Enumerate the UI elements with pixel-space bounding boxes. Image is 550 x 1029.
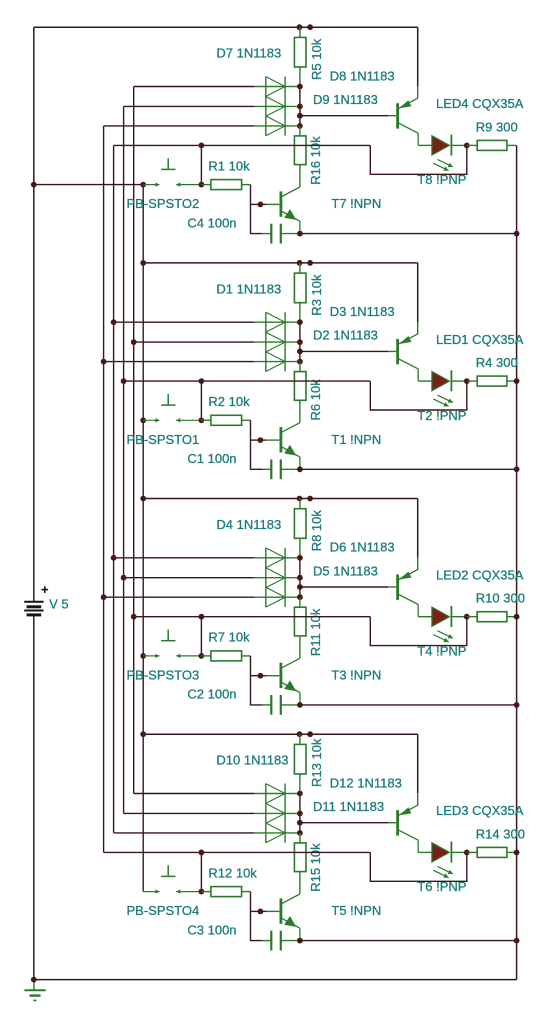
diode cathode common bar <box>284 312 286 371</box>
diode D9 (middle) <box>254 97 300 117</box>
transistor T8 !PNP PNP <box>398 98 419 145</box>
diode cathode common bar <box>284 784 286 843</box>
resistor R7 10k (horizontal) <box>201 655 211 657</box>
wire bus net-B (LED1 feedback) <box>123 106 125 813</box>
node LED output <box>464 378 470 384</box>
node cathode row2 <box>297 811 303 817</box>
node cathode base tap <box>297 349 303 355</box>
svg-text:C4 100n: C4 100n <box>187 215 236 230</box>
diode anode common bar <box>265 784 267 843</box>
wire diode input row 2 <box>134 341 254 343</box>
node button-resistor junction <box>199 182 205 188</box>
node rail junction b <box>307 496 313 502</box>
wire resistor to cap <box>251 656 263 705</box>
node LED output <box>464 143 470 149</box>
svg-text:C2 100n: C2 100n <box>187 687 236 702</box>
svg-text:D4 1N1183: D4 1N1183 <box>216 517 281 532</box>
resistor R10 300 (horizontal) <box>467 616 477 618</box>
wire emitter return to right rail <box>300 233 517 235</box>
svg-text:V 5: V 5 <box>49 597 69 612</box>
transistor T1 !NPN NPN <box>281 423 300 470</box>
wire emitter return to right rail <box>300 940 517 942</box>
svg-text:R8 10k: R8 10k <box>309 510 324 552</box>
wire bottom rail <box>34 979 517 981</box>
capacitor C1 100n <box>262 459 300 479</box>
node base wire joint <box>258 673 264 679</box>
wire feedback to bus <box>134 616 371 618</box>
LED emission arrows <box>438 395 453 402</box>
wire left +V rail (battery + to top) <box>33 27 35 602</box>
wire diode input row 1 <box>114 321 254 323</box>
svg-text:PB-SPSTO1: PB-SPSTO1 <box>127 432 200 447</box>
wire bus net-C (LED2 feedback) <box>133 87 135 794</box>
wire left rail (battery - to bottom) <box>33 615 35 980</box>
node button-resistor junction <box>199 653 205 659</box>
resistor R6 10k (vertical) <box>299 362 301 372</box>
wire diode input row 1 <box>114 557 254 559</box>
diode D6 (bottom) <box>254 587 300 607</box>
resistor R9 300 (horizontal) <box>467 144 477 146</box>
node rail junction b <box>307 731 313 737</box>
diode D1 (top) <box>254 312 300 332</box>
wire feedback to bus <box>114 144 371 146</box>
wire PNP emitter to rail <box>417 499 419 558</box>
node LED output <box>464 614 470 620</box>
resistor R5 10k (vertical) <box>299 27 301 37</box>
wire cathode column <box>299 558 301 597</box>
wire cathode column <box>299 87 301 126</box>
capacitor C4 100n <box>262 224 300 244</box>
node feedback drop tap <box>199 850 205 856</box>
node base wire joint <box>258 202 264 208</box>
svg-text:D5 1N1183: D5 1N1183 <box>313 563 378 578</box>
wire feedback jog <box>370 852 467 881</box>
node right-rail return tap <box>514 231 520 237</box>
svg-text:T3 !NPN: T3 !NPN <box>331 668 381 683</box>
node right-rail return tap <box>514 702 520 708</box>
resistor R1 10k (horizontal) <box>201 184 211 186</box>
wire diode input row 2 <box>124 105 254 107</box>
push-button PB-SPSTO1 <box>143 419 159 421</box>
wire right rail <box>516 145 518 979</box>
svg-text:R16 10k: R16 10k <box>308 136 323 185</box>
svg-text:R10 300: R10 300 <box>476 591 525 606</box>
node cathode row1 <box>297 791 303 797</box>
wire diode input row 2 <box>124 577 254 579</box>
svg-text:R6 10k: R6 10k <box>308 379 323 421</box>
diode D5 (middle) <box>254 568 300 588</box>
node +V tap <box>140 260 146 266</box>
diode D4 (top) <box>254 548 300 568</box>
wire PNP emitter to rail <box>417 263 419 322</box>
svg-text:D12 1N1183: D12 1N1183 <box>330 775 402 790</box>
push-button PB-SPSTO4 <box>143 891 159 893</box>
wire diode input row 1 <box>134 86 254 88</box>
wire feedback to bus <box>104 851 371 853</box>
svg-text:LED3 CQX35A: LED3 CQX35A <box>436 803 524 818</box>
node cathode base tap <box>297 584 303 590</box>
wire diode input row 2 <box>124 812 254 814</box>
node right-rail tap <box>514 378 520 384</box>
node bus tap row1 <box>111 555 117 561</box>
ground <box>24 980 45 1001</box>
wire PNP base <box>300 586 388 588</box>
node cathode row1 <box>297 84 303 90</box>
svg-text:R13 10k: R13 10k <box>309 738 324 787</box>
wire PNP emitter to rail <box>417 734 419 793</box>
node +V rail tap <box>31 182 37 188</box>
push-button PB-SPSTO2 <box>143 184 159 186</box>
node cathode row3 <box>297 830 303 836</box>
node button +V node <box>140 417 146 423</box>
node feedback drop tap <box>199 143 205 149</box>
diode D3 (bottom) <box>254 352 300 372</box>
node button-resistor junction <box>199 889 205 895</box>
node rail junction a <box>297 24 303 30</box>
wire +V rail of block 2 <box>143 262 418 264</box>
wire +V rail of block 3 <box>143 498 418 500</box>
node right-rail return tap <box>514 466 520 472</box>
wire feedback drop to button row <box>200 381 202 420</box>
wire base wire <box>251 203 267 205</box>
wire resistor to cap <box>251 420 263 469</box>
diode anode common bar <box>265 312 267 371</box>
transistor T4 !PNP PNP <box>398 570 419 617</box>
node emitter-cap junction <box>297 466 303 472</box>
diode cathode common bar <box>284 548 286 607</box>
node right-rail tap <box>514 614 520 620</box>
node +V tap <box>140 731 146 737</box>
svg-text:PB-SPSTO4: PB-SPSTO4 <box>127 903 200 918</box>
wire resistor to cap <box>251 892 263 941</box>
wire feedback jog <box>370 145 467 174</box>
capacitor C3 100n <box>262 931 300 951</box>
svg-text:R12 10k: R12 10k <box>208 865 257 880</box>
wire PNP base <box>300 115 388 117</box>
node bus tap row2 <box>121 575 127 581</box>
wire base wire <box>251 675 267 677</box>
diode anode common bar <box>265 77 267 136</box>
resistor R13 10k (vertical) <box>299 734 301 744</box>
resistor R11 10k (vertical) <box>299 597 301 607</box>
node rail junction a <box>297 731 303 737</box>
resistor R3 10k (vertical) <box>299 263 301 273</box>
wire +V top rail <box>34 26 418 28</box>
push-button PB-SPSTO3 <box>143 655 159 657</box>
wire cathode column <box>299 322 301 361</box>
diode cathode common bar <box>284 77 286 136</box>
node bus tap row1 <box>111 319 117 325</box>
svg-text:C3 100n: C3 100n <box>187 922 236 937</box>
wire PNP base <box>300 822 388 824</box>
svg-text:D2 1N1183: D2 1N1183 <box>313 328 378 343</box>
resistor R15 10k (vertical) <box>299 833 301 843</box>
wire feedback drop to button row <box>200 145 202 184</box>
svg-text:D3 1N1183: D3 1N1183 <box>330 304 395 319</box>
node right-rail tap <box>514 850 520 856</box>
svg-text:PB-SPSTO3: PB-SPSTO3 <box>127 668 200 683</box>
wire diode input row 3 <box>114 832 254 834</box>
node button +V node <box>140 653 146 659</box>
resistor R12 10k (horizontal) <box>201 891 211 893</box>
node rail junction a <box>297 260 303 266</box>
wire bus net-D (LED3 feedback) <box>103 126 105 853</box>
wire emitter return to right rail <box>300 704 517 706</box>
wire base wire <box>251 910 267 912</box>
resistor R4 300 (horizontal) <box>467 380 477 382</box>
node cathode row2 <box>297 104 303 110</box>
node bus tap row3 <box>101 359 107 365</box>
node cathode base tap <box>297 820 303 826</box>
wire resistor to cap <box>251 185 263 234</box>
LED LED3 <box>418 842 467 863</box>
wire base wire <box>251 439 267 441</box>
node button-resistor junction <box>199 417 205 423</box>
wire diode input row 3 <box>104 361 254 363</box>
node feedback drop tap <box>199 614 205 620</box>
transistor T7 !NPN NPN <box>281 187 300 234</box>
node feedback bus tap <box>121 378 127 384</box>
node cathode row1 <box>297 319 303 325</box>
wire diode input row 1 <box>134 793 254 795</box>
wire bus net-A (LED4 feedback) <box>113 145 115 833</box>
node cathode row3 <box>297 594 303 600</box>
svg-text:T5 !NPN: T5 !NPN <box>331 903 381 918</box>
node LED output <box>464 850 470 856</box>
svg-text:LED4 CQX35A: LED4 CQX35A <box>436 96 524 111</box>
wire feedback jog <box>370 381 467 410</box>
LED emission arrows <box>438 867 453 874</box>
node cathode row3 <box>297 123 303 129</box>
svg-text:R15 10k: R15 10k <box>308 843 323 892</box>
svg-text:D11 1N1183: D11 1N1183 <box>313 799 384 814</box>
capacitor C2 100n <box>262 695 300 715</box>
transistor T6 !PNP PNP <box>398 805 419 852</box>
diode D11 (middle) <box>254 804 300 824</box>
node feedback drop tap <box>199 378 205 384</box>
diode D10 (top) <box>254 784 300 804</box>
node cathode row2 <box>297 575 303 581</box>
svg-text:R7 10k: R7 10k <box>208 630 250 645</box>
svg-text:LED2 CQX35A: LED2 CQX35A <box>436 567 524 582</box>
battery V5 <box>24 586 48 615</box>
transistor T3 !NPN NPN <box>281 658 300 705</box>
node rail junction b <box>307 24 313 30</box>
node ground junction <box>31 977 37 983</box>
node emitter-cap junction <box>297 702 303 708</box>
svg-text:T7 !NPN: T7 !NPN <box>331 196 381 211</box>
wire cathode column <box>299 794 301 833</box>
svg-text:D9 1N1183: D9 1N1183 <box>313 92 378 107</box>
node right-rail return tap <box>514 938 520 944</box>
node rail junction b <box>307 260 313 266</box>
node cathode row2 <box>297 339 303 345</box>
transistor T2 !PNP PNP <box>398 334 419 381</box>
svg-text:C1 100n: C1 100n <box>187 451 236 466</box>
svg-text:T1 !NPN: T1 !NPN <box>331 432 381 447</box>
diode D2 (middle) <box>254 332 300 352</box>
node cathode row3 <box>297 359 303 365</box>
svg-text:R14 300: R14 300 <box>476 826 525 841</box>
svg-text:R5 10k: R5 10k <box>309 38 324 80</box>
resistor R14 300 (horizontal) <box>467 851 477 853</box>
svg-text:R1 10k: R1 10k <box>208 158 250 173</box>
node +V tap <box>140 496 146 502</box>
node emitter-cap junction <box>297 938 303 944</box>
svg-text:D1 1N1183: D1 1N1183 <box>216 281 281 296</box>
svg-text:R3 10k: R3 10k <box>309 274 324 316</box>
svg-text:R4 300: R4 300 <box>476 355 518 370</box>
LED LED2 <box>418 606 467 627</box>
wire diode input row 3 <box>104 125 254 127</box>
svg-text:R2 10k: R2 10k <box>208 394 250 409</box>
diode D12 (bottom) <box>254 823 300 843</box>
node button +V node <box>140 182 146 188</box>
LED emission arrows <box>438 160 453 167</box>
diode D7 (top) <box>254 77 300 97</box>
node base wire joint <box>258 909 264 915</box>
wire PNP base <box>300 350 388 352</box>
node feedback bus tap <box>131 614 137 620</box>
svg-text:R9 300: R9 300 <box>476 119 518 134</box>
wire bus +V to push-buttons <box>142 185 144 892</box>
svg-text:D8 1N1183: D8 1N1183 <box>330 68 395 83</box>
resistor R16 10k (vertical) <box>299 126 301 136</box>
wire feedback drop to button row <box>200 617 202 656</box>
node rail junction a <box>297 496 303 502</box>
resistor R2 10k (horizontal) <box>201 419 211 421</box>
node bus tap row3 <box>101 594 107 600</box>
transistor T5 !NPN NPN <box>281 894 300 941</box>
node cathode row1 <box>297 555 303 561</box>
svg-text:PB-SPSTO2: PB-SPSTO2 <box>127 196 200 211</box>
wire feedback to bus <box>124 380 371 382</box>
wire feedback jog <box>370 617 467 646</box>
node bus tap row2 <box>131 339 137 345</box>
LED LED1 <box>418 370 467 391</box>
resistor R8 10k (vertical) <box>299 499 301 509</box>
diode anode common bar <box>265 548 267 607</box>
svg-text:D10 1N1183: D10 1N1183 <box>216 753 288 768</box>
node cathode base tap <box>297 113 303 119</box>
wire +V to button <box>34 184 143 186</box>
svg-text:D7 1N1183: D7 1N1183 <box>216 46 281 61</box>
LED emission arrows <box>438 631 453 638</box>
wire feedback drop to button row <box>200 852 202 891</box>
svg-text:D6 1N1183: D6 1N1183 <box>330 540 395 555</box>
svg-text:LED1 CQX35A: LED1 CQX35A <box>436 332 524 347</box>
wire +V rail of block 4 <box>143 733 418 735</box>
svg-text:R11 10k: R11 10k <box>308 608 323 656</box>
node base wire joint <box>258 437 264 443</box>
node emitter-cap junction <box>297 231 303 237</box>
wire diode input row 3 <box>104 596 254 598</box>
wire PNP emitter to rail <box>417 27 419 86</box>
LED LED4 <box>418 135 467 156</box>
diode D8 (bottom) <box>254 116 300 136</box>
wire emitter return to right rail <box>300 468 517 470</box>
